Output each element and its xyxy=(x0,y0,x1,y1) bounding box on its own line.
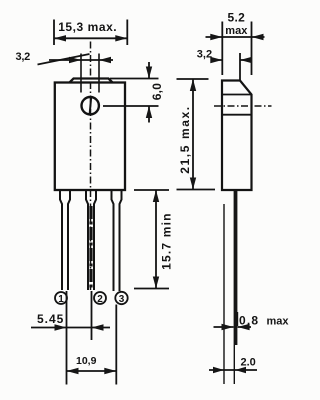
svg-text:2.0: 2.0 xyxy=(241,356,256,368)
svg-text:3: 3 xyxy=(119,294,125,305)
svg-text:1: 1 xyxy=(58,294,64,305)
svg-text:3,2: 3,2 xyxy=(197,49,212,61)
svg-text:max: max xyxy=(267,315,290,327)
svg-text:0.8: 0.8 xyxy=(239,313,259,327)
svg-text:15.7 min: 15.7 min xyxy=(159,212,173,270)
svg-text:max: max xyxy=(225,25,248,37)
svg-text:15,3 max.: 15,3 max. xyxy=(58,20,117,34)
svg-text:21,5 max.: 21,5 max. xyxy=(178,105,192,173)
svg-text:5.45: 5.45 xyxy=(37,312,64,326)
svg-text:6,0: 6,0 xyxy=(150,83,164,101)
svg-text:2: 2 xyxy=(97,294,103,305)
svg-text:5.2: 5.2 xyxy=(228,10,246,24)
svg-text:3,2: 3,2 xyxy=(16,51,31,63)
svg-text:10,9: 10,9 xyxy=(76,355,97,367)
